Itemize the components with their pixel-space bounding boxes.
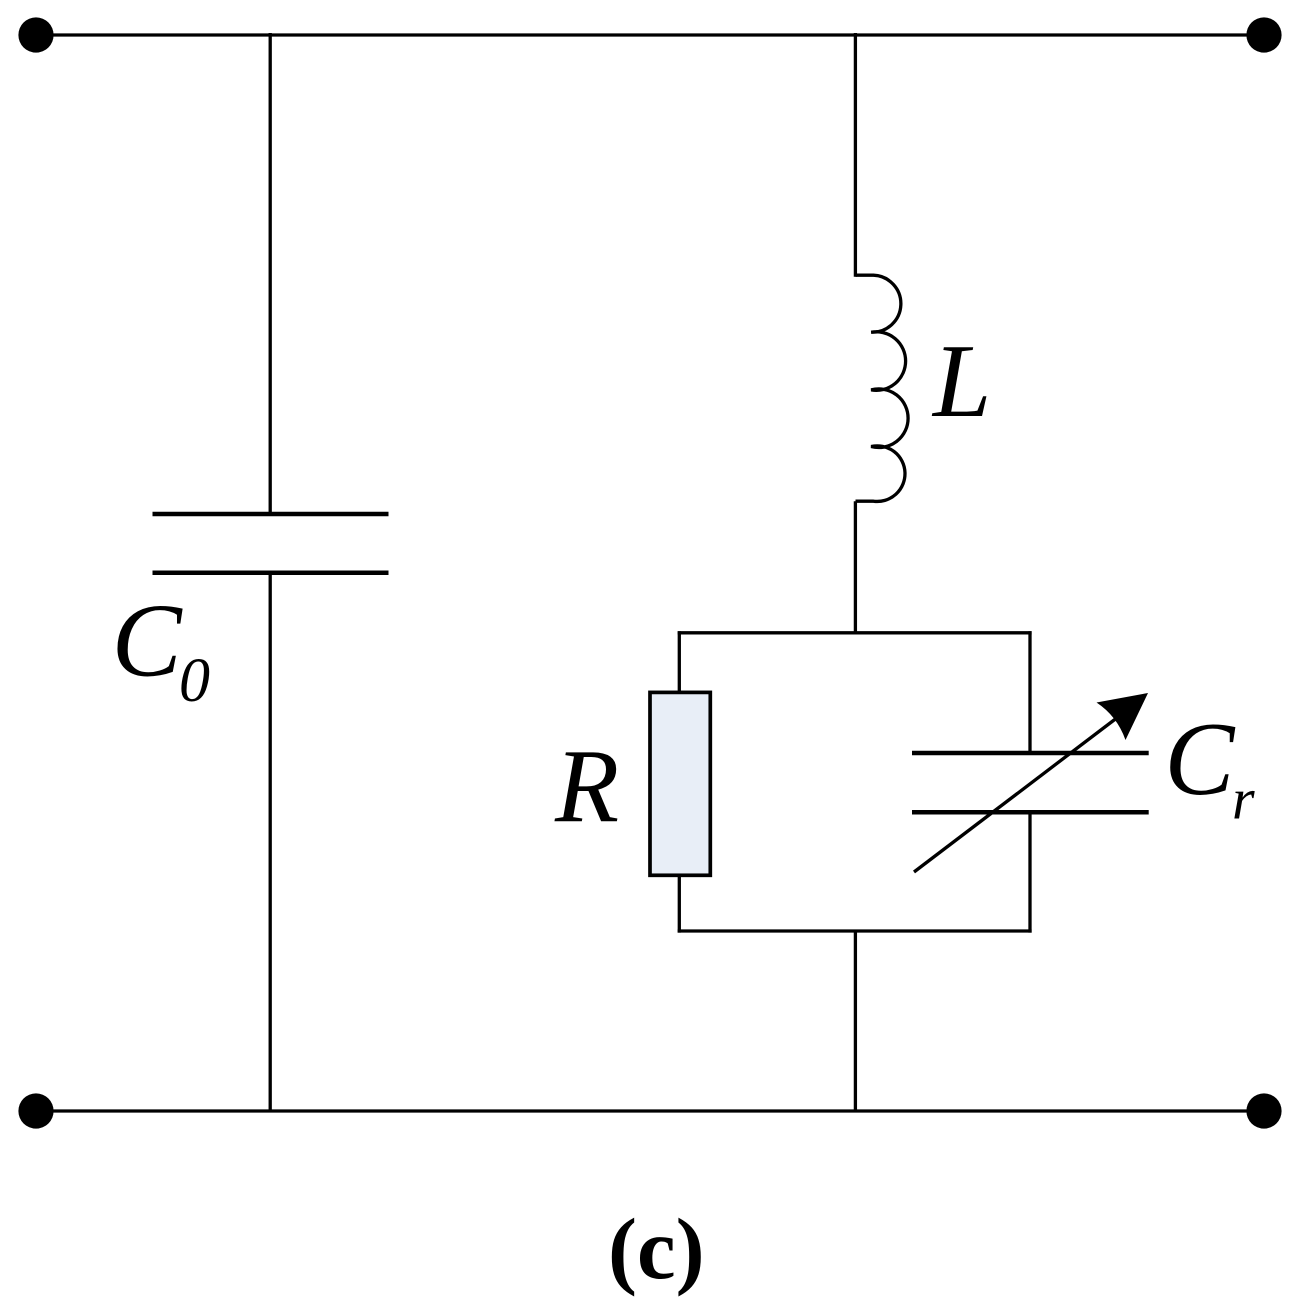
terminal dot top-left — [18, 17, 53, 52]
svg-text:L: L — [931, 322, 991, 439]
svg-text:C: C — [1164, 700, 1236, 817]
resistor R — [650, 692, 710, 875]
variable capacitor arrow shaft — [914, 716, 1120, 873]
wire left branch lower — [269, 573, 272, 1111]
terminal dot bottom-right — [1246, 1093, 1281, 1128]
svg-text:R: R — [554, 727, 619, 844]
capacitor C0 bottom plate — [153, 571, 389, 576]
wire top rail — [35, 33, 1264, 36]
capacitor C0 top plate — [153, 512, 389, 517]
terminal dot bottom-left — [18, 1093, 53, 1128]
svg-text:(c): (c) — [608, 1200, 705, 1297]
wire middle branch upper — [854, 33, 857, 277]
wire middle branch lower — [854, 931, 857, 1111]
wire middle branch to box — [854, 501, 857, 634]
variable capacitor arrowhead — [1097, 693, 1149, 740]
wire bottom rail — [36, 1109, 1264, 1112]
wire box top edge — [678, 631, 1032, 634]
wire box right edge lower — [1028, 812, 1031, 932]
wire left branch upper — [269, 33, 272, 514]
terminal dot top-right — [1246, 17, 1281, 52]
svg-text:0: 0 — [179, 647, 210, 715]
capacitor Cr bottom plate — [912, 810, 1149, 815]
svg-text:C: C — [112, 581, 184, 698]
svg-text:r: r — [1232, 767, 1255, 832]
wire box right edge upper — [1028, 631, 1031, 753]
wire box bottom edge — [678, 929, 1032, 932]
capacitor Cr top plate — [912, 751, 1149, 756]
wire box left edge — [678, 631, 681, 932]
inductor L — [856, 275, 909, 501]
